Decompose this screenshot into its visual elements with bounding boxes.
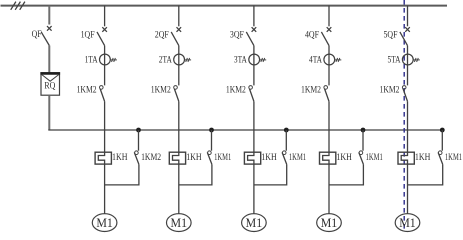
- label upper 1KM2: [380, 85, 400, 95]
- wire contact to thermal relay 1KH: [104, 101, 106, 152]
- current transformer 1TA: [100, 54, 117, 65]
- thermal relay 1KH: [320, 152, 336, 164]
- svg-text:1KM2: 1KM2: [141, 153, 161, 163]
- wire RQ to lower bus corner: [48, 95, 50, 130]
- label upper 1KM2: [301, 85, 321, 95]
- section divider dashed line: [403, 0, 405, 232]
- svg-text:1KH: 1KH: [186, 153, 202, 163]
- thermal relay 1KH: [398, 152, 414, 164]
- label 5QF: [384, 31, 398, 41]
- label upper 1KM2: [151, 85, 171, 95]
- label 1TA: [85, 55, 98, 65]
- svg-text:3TA: 3TA: [234, 55, 247, 65]
- breaker 5QF: [400, 27, 410, 45]
- label 4TA: [309, 55, 322, 65]
- svg-text:M1: M1: [171, 216, 188, 230]
- svg-text:1KM1: 1KM1: [366, 153, 383, 163]
- svg-text:2TA: 2TA: [159, 55, 172, 65]
- svg-text:4QF: 4QF: [305, 31, 319, 41]
- svg-text:1KM1: 1KM1: [445, 153, 462, 163]
- wire 3QF to 3TA: [253, 46, 255, 55]
- node junction on lower bus: [136, 128, 141, 133]
- wire bus to 1QF: [104, 6, 106, 27]
- wire branch down and left to motor line: [329, 164, 363, 185]
- wire branch down and left to motor line: [408, 164, 443, 185]
- svg-text:2QF: 2QF: [155, 31, 169, 41]
- label branch 1KM1: [366, 153, 383, 163]
- contactor contact 1KM1 branch: [282, 151, 287, 165]
- label 3QF: [230, 31, 244, 41]
- breaker QF: [41, 26, 51, 45]
- wire 1KH to motor: [253, 164, 255, 214]
- wire bus to contact 1KM1: [285, 130, 287, 151]
- contactor contact 1KM2: [174, 86, 179, 102]
- svg-text:1KH: 1KH: [415, 153, 431, 163]
- wire branch down and left to motor line: [254, 164, 287, 185]
- label 1KH: [186, 153, 202, 163]
- svg-text:3QF: 3QF: [230, 31, 244, 41]
- wire 1KH to motor: [104, 164, 106, 214]
- contactor contact 1KM1 branch: [359, 151, 364, 165]
- label branch 1KM2: [141, 153, 161, 163]
- label 1KH: [336, 153, 352, 163]
- svg-text:M1: M1: [96, 216, 113, 230]
- svg-text:M1: M1: [321, 216, 338, 230]
- label 1KH: [112, 153, 128, 163]
- wire bus to 4QF: [328, 6, 330, 27]
- 3-phase marks ///: [11, 2, 25, 10]
- label 2QF: [155, 31, 169, 41]
- label QF: [32, 30, 42, 40]
- wire 5TA to contact 1KM2: [407, 65, 409, 85]
- svg-text:1KM2: 1KM2: [301, 85, 321, 95]
- contactor contact 1KM2: [324, 86, 329, 102]
- contactor contact 1KM2: [402, 86, 407, 102]
- wire 3TA to contact 1KM2: [253, 65, 255, 85]
- svg-text:1KM2: 1KM2: [380, 85, 400, 95]
- label 5TA: [388, 55, 401, 65]
- breaker 2QF: [171, 27, 181, 45]
- svg-text:5TA: 5TA: [388, 55, 401, 65]
- node junction on lower bus: [440, 128, 445, 133]
- lower bus wire: [48, 129, 442, 131]
- label 4QF: [305, 31, 319, 41]
- label upper 1KM2: [77, 85, 97, 95]
- contactor contact 1KM2 branch: [134, 151, 139, 165]
- label branch 1KM1: [214, 153, 231, 163]
- svg-text:1KM2: 1KM2: [151, 85, 171, 95]
- wire branch down and left to motor line: [179, 164, 212, 185]
- motor M1: [242, 214, 267, 232]
- motor M1: [92, 214, 117, 232]
- label 1KH: [415, 153, 431, 163]
- wire 1KH to motor: [328, 164, 330, 214]
- breaker 4QF: [321, 27, 331, 45]
- contactor contact 1KM1 branch: [207, 151, 212, 165]
- wire contact to thermal relay 1KH: [407, 101, 409, 152]
- node junction on lower bus: [284, 128, 289, 133]
- thermal relay 1KH: [95, 152, 111, 164]
- wire 2QF to 2TA: [178, 46, 180, 55]
- svg-text:1KM1: 1KM1: [214, 153, 231, 163]
- current transformer 4TA: [324, 54, 341, 65]
- svg-text:1KM2: 1KM2: [226, 85, 246, 95]
- svg-text:M1: M1: [399, 216, 416, 230]
- motor M1: [317, 214, 342, 232]
- wire 4TA to contact 1KM2: [328, 65, 330, 85]
- contactor contact 1KM1 branch: [438, 151, 443, 165]
- svg-text:1QF: 1QF: [81, 31, 95, 41]
- current transformer 2TA: [174, 54, 191, 65]
- wire 1TA to contact 1KM2: [104, 65, 106, 85]
- label 3TA: [234, 55, 247, 65]
- contactor contact 1KM2: [249, 86, 254, 102]
- wire 4QF to 4TA: [328, 46, 330, 55]
- wire bus to contact 1KM1: [441, 130, 443, 151]
- svg-text:1KH: 1KH: [261, 153, 277, 163]
- wire bus to QF: [48, 6, 50, 25]
- svg-text:1KH: 1KH: [336, 153, 352, 163]
- wire 2TA to contact 1KM2: [178, 65, 180, 85]
- current transformer 5TA: [402, 54, 419, 65]
- svg-text:1KM1: 1KM1: [289, 153, 306, 163]
- current transformer 3TA: [249, 54, 266, 65]
- svg-text:1TA: 1TA: [85, 55, 98, 65]
- resistor RQ: [40, 73, 60, 95]
- label branch 1KM1: [445, 153, 462, 163]
- svg-text:M1: M1: [246, 216, 263, 230]
- wire bus to 3QF: [253, 6, 255, 27]
- wire 5QF to 5TA: [407, 46, 409, 55]
- label 2TA: [159, 55, 172, 65]
- node junction on lower bus: [209, 128, 214, 133]
- breaker 1QF: [97, 27, 107, 45]
- label branch 1KM1: [289, 153, 306, 163]
- svg-text:RQ: RQ: [44, 81, 55, 91]
- svg-text:1KH: 1KH: [112, 153, 128, 163]
- svg-text:4TA: 4TA: [309, 55, 322, 65]
- svg-text:QF: QF: [32, 30, 42, 40]
- wire bus to 5QF: [407, 6, 409, 27]
- wire bus to 2QF: [178, 6, 180, 27]
- node junction on lower bus: [361, 128, 366, 133]
- 3-phase supply bus: [1, 5, 448, 7]
- wire bus to contact 1KM1: [362, 130, 364, 151]
- wire contact to thermal relay 1KH: [328, 101, 330, 152]
- label 1KH: [261, 153, 277, 163]
- thermal relay 1KH: [169, 152, 185, 164]
- motor M1: [167, 214, 192, 232]
- wire 1KH to motor: [407, 164, 409, 214]
- contactor contact 1KM2: [100, 86, 105, 102]
- breaker 3QF: [246, 27, 256, 45]
- label upper 1KM2: [226, 85, 246, 95]
- wire 1KH to motor: [178, 164, 180, 214]
- motor M1: [395, 214, 420, 232]
- wire contact to thermal relay 1KH: [253, 101, 255, 152]
- wire 1QF to 1TA: [104, 46, 106, 55]
- wire bus to contact 1KM2: [138, 130, 140, 151]
- thermal relay 1KH: [244, 152, 260, 164]
- wire QF to RQ: [48, 46, 50, 73]
- wire bus to contact 1KM1: [211, 130, 213, 151]
- svg-text:1KM2: 1KM2: [77, 85, 97, 95]
- wire branch down and left to motor line: [105, 164, 139, 185]
- label 1QF: [81, 31, 95, 41]
- wire contact to thermal relay 1KH: [178, 101, 180, 152]
- svg-text:5QF: 5QF: [384, 31, 398, 41]
